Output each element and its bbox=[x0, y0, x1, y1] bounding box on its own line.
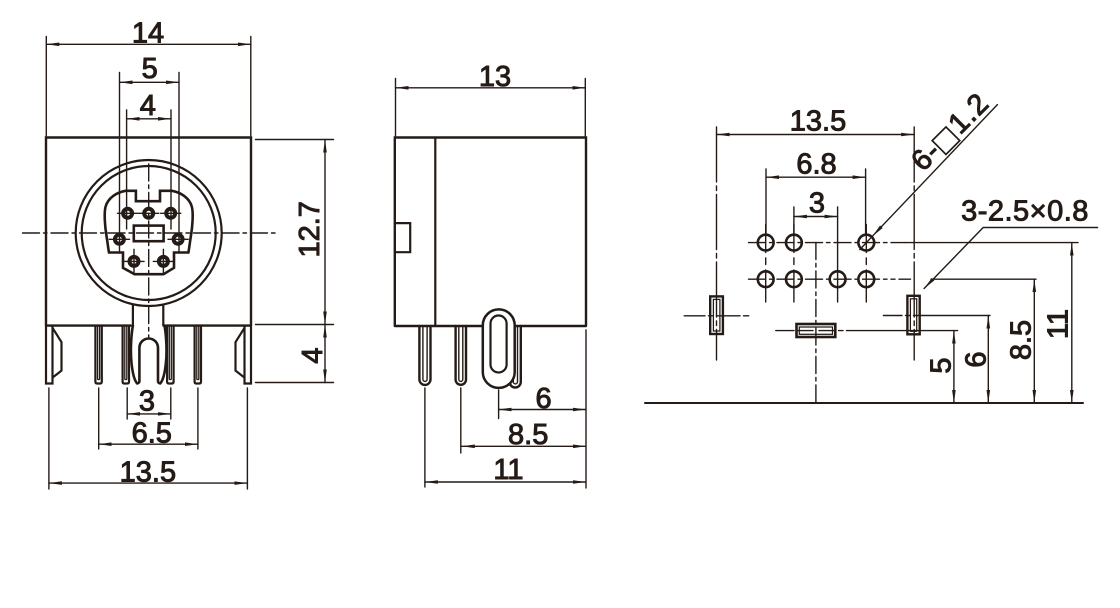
svg-text:11: 11 bbox=[493, 454, 523, 486]
svg-text:13: 13 bbox=[479, 61, 511, 93]
dim 13.5 bottom bbox=[49, 388, 248, 489]
FOOTPRINT VIEW bbox=[645, 87, 1098, 403]
dim 8.5 fp bbox=[1033, 279, 1035, 403]
pin mid-left bbox=[115, 235, 124, 244]
dim 11 side bbox=[424, 388, 426, 487]
left slot bbox=[710, 296, 723, 334]
side pin C (behind oval) bbox=[510, 326, 521, 387]
front inner shield circle bbox=[82, 166, 216, 300]
svg-text:8.5: 8.5 bbox=[508, 419, 548, 451]
front center shaft with U slot bbox=[131, 326, 167, 384]
svg-text:6: 6 bbox=[961, 351, 993, 367]
pin bottom-left bbox=[130, 257, 139, 266]
front barrel post lines bbox=[133, 305, 163, 326]
svg-text:12.7: 12.7 bbox=[294, 201, 326, 257]
svg-text:6: 6 bbox=[536, 383, 552, 415]
dim 13.5 fp bbox=[717, 134, 915, 136]
dim 14 bbox=[46, 37, 251, 137]
svg-text:6.8: 6.8 bbox=[796, 149, 836, 181]
pin top-right bbox=[166, 209, 175, 218]
dim 4 right bbox=[256, 382, 334, 384]
right mount flange bbox=[236, 328, 245, 378]
front center key slot bbox=[134, 226, 164, 242]
SIDE VIEW bbox=[395, 61, 586, 488]
dim 5 fp bbox=[953, 331, 955, 403]
pin mid-right bbox=[174, 235, 183, 244]
hole bottom row circles bbox=[758, 271, 774, 287]
svg-text:13.5: 13.5 bbox=[790, 105, 846, 137]
dim 6 fp bbox=[987, 316, 989, 404]
dim 3 bottom bbox=[127, 388, 171, 419]
svg-text:13.5: 13.5 bbox=[120, 456, 176, 488]
hole top row circles bbox=[758, 235, 774, 251]
svg-text:4: 4 bbox=[140, 90, 156, 122]
leader 6-sq-1.2 bbox=[872, 105, 997, 237]
side body outline bbox=[395, 138, 586, 327]
dim 13 bbox=[396, 79, 586, 137]
svg-text:3: 3 bbox=[809, 187, 825, 219]
svg-text:14: 14 bbox=[132, 18, 164, 50]
side center shaft oval bbox=[483, 309, 515, 388]
pin top-left bbox=[123, 209, 132, 218]
hole row centerline bottom / dim 8.5 extension bbox=[749, 278, 896, 280]
front metal shield outline bbox=[105, 191, 193, 274]
left mount flange bbox=[53, 328, 62, 378]
dim 6.5 bbox=[99, 388, 198, 449]
right mount strip bbox=[245, 326, 252, 384]
front leg pin 2 bbox=[123, 326, 129, 384]
svg-text:11: 11 bbox=[1043, 309, 1075, 339]
FRONT VIEW bbox=[23, 18, 334, 489]
svg-text:6.5: 6.5 bbox=[132, 418, 172, 450]
hole row centerline top / dim 11 extension bbox=[749, 242, 906, 244]
svg-text:5: 5 bbox=[926, 357, 958, 373]
side right extension line bbox=[585, 330, 587, 488]
pin top-center bbox=[144, 209, 153, 218]
dim 3 fp bbox=[794, 207, 838, 261]
svg-text:6-: 6- bbox=[905, 135, 947, 177]
svg-text:4: 4 bbox=[297, 347, 329, 363]
side inner face line bbox=[434, 138, 436, 327]
left mount strip bbox=[46, 326, 53, 384]
dim 5 bbox=[120, 73, 180, 254]
svg-text:8.5: 8.5 bbox=[1006, 320, 1038, 360]
dim 8.5 side bbox=[460, 388, 462, 453]
svg-text:3: 3 bbox=[139, 386, 155, 418]
side tab bbox=[395, 223, 410, 252]
front outer shield circle bbox=[76, 160, 222, 306]
front horizontal centerline bbox=[23, 232, 278, 234]
pin bottom-right bbox=[159, 257, 168, 266]
right slot bbox=[907, 296, 919, 335]
dim 6.8 bbox=[766, 169, 866, 233]
hole column centerlines bbox=[765, 225, 767, 303]
front leg pin 4 bbox=[195, 326, 201, 384]
dim 6 side bbox=[498, 390, 500, 419]
center slot bbox=[797, 324, 836, 337]
dim 12.7 bbox=[256, 140, 334, 325]
dim 11 fp bbox=[1071, 243, 1073, 403]
svg-text:3-2.5×0.8: 3-2.5×0.8 bbox=[961, 196, 1089, 228]
front body outline bbox=[46, 138, 251, 326]
front leg pin 3 bbox=[167, 326, 174, 384]
side pin B bbox=[456, 326, 466, 385]
front vertical centerline bbox=[148, 164, 150, 338]
pcb baseline bbox=[645, 402, 1083, 404]
side pin A bbox=[419, 326, 430, 385]
footprint vertical centerline bbox=[815, 243, 817, 404]
svg-text:5: 5 bbox=[142, 53, 158, 85]
front leg pin 1 bbox=[95, 326, 101, 384]
dim 4 top bbox=[127, 110, 171, 229]
